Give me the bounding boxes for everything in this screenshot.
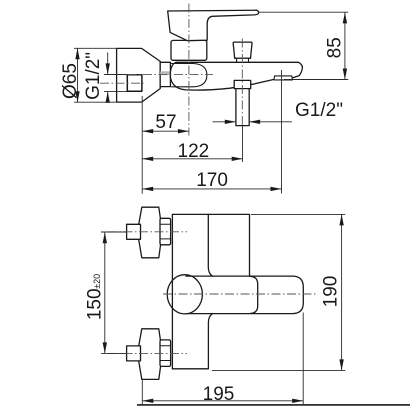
svg-text:G1/2": G1/2" bbox=[83, 52, 104, 100]
svg-text:190: 190 bbox=[321, 276, 342, 308]
svg-text:57: 57 bbox=[155, 112, 176, 133]
svg-text:85: 85 bbox=[325, 37, 346, 58]
svg-text:150: 150 bbox=[84, 288, 105, 320]
svg-text:Ø65: Ø65 bbox=[60, 63, 81, 99]
svg-text:195: 195 bbox=[203, 384, 235, 405]
svg-text:122: 122 bbox=[178, 141, 210, 162]
svg-text:G1/2": G1/2" bbox=[295, 100, 343, 121]
svg-text:170: 170 bbox=[196, 170, 228, 191]
svg-text:±20: ±20 bbox=[92, 274, 102, 289]
